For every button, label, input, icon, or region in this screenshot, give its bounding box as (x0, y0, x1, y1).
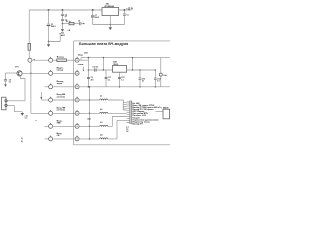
svg-text:Большая плата ВЧ-модуля: Большая плата ВЧ-модуля (79, 42, 128, 46)
jack XW5 row5 (49, 110, 53, 115)
wire common rail row3 (79, 86, 170, 88)
svg-text:антенны: антенны (57, 110, 66, 112)
svg-text:ZQ1: ZQ1 (87, 119, 91, 121)
jack XW4 row4 (49, 97, 53, 102)
svg-text:С10 0,1: С10 0,1 (92, 67, 98, 69)
diode VD2 (160, 58, 162, 87)
wire left feed vertical (28, 10, 30, 43)
wire rail to output (132, 58, 134, 70)
transistor VT1 (17, 71, 22, 76)
ground XS1 (21, 113, 24, 116)
terminal +12V output (129, 9, 131, 11)
transistor VD1 box (163, 109, 170, 119)
capacitor C11 (105, 70, 107, 87)
resistor R3 row1 (57, 59, 67, 62)
jack XP5 row5 module (75, 110, 79, 115)
jack XP6 row6 module (75, 123, 79, 128)
ground C6 (4, 84, 7, 86)
wire row7 module (79, 120, 127, 138)
wire left bus (31, 62, 49, 113)
ground below C1 (48, 42, 50, 45)
op-amp DA1 voltage regulator (102, 8, 119, 16)
svg-text:пит: пит (25, 118, 28, 120)
wire feed DA2 (88, 69, 112, 71)
jack XW7 row7 (49, 136, 53, 141)
capacitor C1 (48, 10, 50, 42)
svg-text:выход: выход (57, 70, 64, 72)
capacitor C9 (87, 77, 90, 78)
capacitor C10 series (95, 68, 96, 71)
svg-text:100,0: 100,0 (95, 17, 99, 19)
svg-text:0,1: 0,1 (157, 81, 159, 83)
arrow row4 source (40, 92, 42, 97)
svg-text:78L05: 78L05 (113, 64, 118, 66)
wire VT1 emitter (20, 76, 25, 101)
wire to VD1 box (156, 110, 164, 112)
node junction C1 on rail (48, 9, 50, 11)
wire row3 left (45, 86, 49, 88)
wire row4 module (79, 100, 127, 102)
wire C4 to arrow (81, 23, 83, 25)
ground DA1 (109, 27, 112, 30)
module box outline (74, 41, 171, 145)
wire row7 mid (52, 138, 75, 140)
wire mark (35, 119, 37, 121)
ground below C3 (62, 24, 64, 30)
svg-text:0,1: 0,1 (65, 16, 67, 18)
jack XW2 row2 (49, 70, 53, 75)
svg-text:+12 В: +12 В (126, 7, 133, 10)
arrow signal out (83, 23, 85, 25)
jack XP3 row3 module (75, 84, 79, 89)
node junction C7 (92, 9, 94, 11)
svg-text:к выв.: к выв. (78, 64, 84, 66)
jack XW3 row3 (49, 84, 53, 89)
node junction C3/R1 (62, 23, 64, 25)
wire XS1 pin2 to ground (7, 105, 22, 113)
wire row6 left (45, 125, 49, 127)
wire resistor to jack (28, 50, 30, 58)
IC D1 body (130, 101, 132, 124)
svg-text:0,1: 0,1 (142, 81, 144, 83)
wire row4 mid (52, 99, 75, 101)
wire DA2 output (127, 69, 156, 71)
svg-text:звука: звука (57, 83, 63, 85)
jack XP4 row4 module (75, 97, 79, 102)
inductor L2 (100, 112, 108, 113)
wire row6 module (79, 117, 127, 127)
node junction rail/x88 (88, 57, 90, 59)
node junction C8 (123, 9, 125, 11)
node junction ground/antenna (48, 41, 50, 43)
svg-text:С4: С4 (78, 19, 80, 22)
wire row6 mid (52, 125, 75, 127)
wire DA1 ground stem (109, 16, 111, 28)
capacitor C4 (80, 22, 81, 25)
wire row4 left (41, 99, 49, 101)
IC D1 pin numbers below (126, 127, 129, 133)
connector XS1 (2, 97, 6, 110)
svg-text:КВ109: КВ109 (163, 108, 168, 110)
connector X1 bullet (28, 58, 32, 62)
wire stub rail to feed (103, 58, 105, 70)
capacitor C2 (62, 10, 64, 24)
wire VT1 base (6, 72, 19, 74)
inductor L3 (100, 125, 108, 126)
capacitor C7 (92, 10, 94, 25)
wire row1 mid (52, 59, 75, 61)
svg-text:КР142ЕН8А: КР142ЕН8А (104, 5, 114, 8)
capacitor C12 on DA2 stem (119, 72, 121, 87)
svg-text:УКВ: УКВ (57, 123, 61, 125)
wire row1 left (32, 59, 49, 61)
wire row7 left (45, 138, 49, 140)
wire R1 to C4 (74, 23, 79, 25)
jack XP7 row7 module (75, 136, 79, 141)
svg-text:R1 1к: R1 1к (66, 21, 71, 23)
wire row5 mid (52, 112, 75, 114)
inductor L4 (100, 138, 108, 139)
svg-text:0,1: 0,1 (9, 81, 11, 83)
wire bus ground distribution (89, 87, 91, 139)
resistor R2 (28, 43, 31, 50)
wire IC feed collector (123, 102, 126, 110)
wire row2 left (22, 72, 49, 74)
wire to R1 (63, 23, 70, 25)
node junction row2 (30, 73, 32, 75)
wire row5 module (79, 112, 127, 114)
jack XP2 row2 module (75, 70, 79, 75)
capacitor C6 (5, 73, 7, 84)
svg-text:0,1: 0,1 (121, 79, 123, 81)
svg-text:Выход НЧ: Выход НЧ (132, 123, 143, 125)
capacitor C3 (61, 19, 64, 20)
IC D1 pin labels (132, 102, 162, 126)
wire row3 mid (52, 86, 75, 88)
wire vertical x88 (87, 58, 89, 87)
jack XP1 row1 module (75, 57, 79, 62)
capacitor C13 (139, 69, 141, 71)
svg-text:0,1: 0,1 (108, 79, 110, 81)
svg-text:0,1: 0,1 (126, 14, 128, 16)
svg-text:47н: 47н (91, 78, 94, 81)
svg-text:антенны: антенны (57, 96, 66, 98)
node junction C2 chain on rail (62, 9, 64, 11)
node junction feed DA2 (88, 69, 90, 71)
op-amp DA2 regulator (113, 65, 127, 72)
svg-text:500,0: 500,0 (51, 26, 56, 28)
capacitor C14 (155, 69, 157, 71)
node junction DA1 gnd (110, 24, 112, 26)
arrow annotation (83, 67, 85, 70)
jack XW1 row1 (49, 57, 53, 62)
inductor L1 (100, 99, 108, 100)
terminal Gn1 antenna input (49, 33, 62, 41)
wire regulator bottom rail (93, 24, 125, 26)
wire top +12V rail (29, 9, 130, 11)
IC D1 pin stubs (127, 102, 130, 123)
capacitor C8 (123, 10, 125, 25)
wire rail +12V module (79, 58, 170, 61)
resistor R1 (69, 22, 74, 24)
wire XS1 pin1 (7, 100, 25, 102)
jack XW6 row6 (49, 123, 53, 128)
svg-text:Выход: Выход (57, 57, 64, 59)
wire row2 mid (52, 72, 75, 74)
